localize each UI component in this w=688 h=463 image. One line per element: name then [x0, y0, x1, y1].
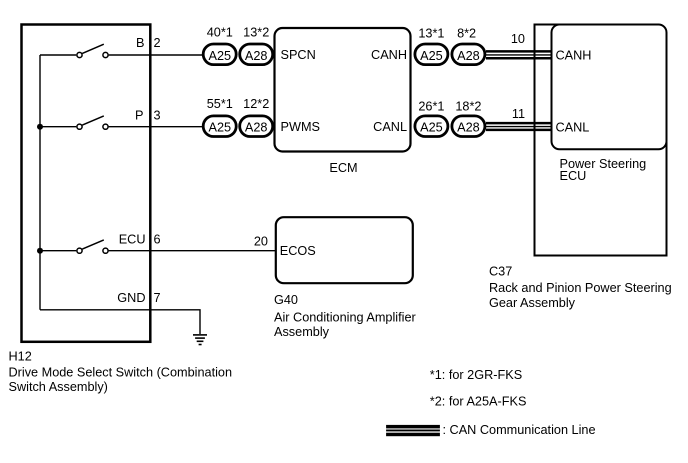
- A/C amplifier box G40: [276, 217, 413, 283]
- svg-text:13*1: 13*1: [418, 27, 444, 41]
- connector oval A25 (row P right): [415, 116, 448, 137]
- wire row ECU left: [40, 250, 76, 252]
- ECM U1: [275, 28, 411, 152]
- svg-text:A28: A28: [457, 121, 480, 135]
- wire row P left: [40, 126, 76, 128]
- connector oval A25 (row P left): [203, 116, 236, 137]
- svg-text:8*2: 8*2: [457, 27, 476, 41]
- svg-text:: CAN Communication Line: : CAN Communication Line: [443, 423, 596, 437]
- wire row B to A25: [109, 54, 203, 56]
- svg-text:ECM: ECM: [329, 161, 357, 175]
- svg-text:H12: H12: [9, 349, 32, 363]
- svg-text:C37: C37: [489, 264, 512, 278]
- connector oval A28 (row B left): [240, 44, 273, 65]
- svg-text:A28: A28: [245, 49, 268, 63]
- svg-text:ECU: ECU: [119, 233, 146, 247]
- svg-text:SPCN: SPCN: [281, 48, 316, 62]
- svg-text:*2: for A25A-FKS: *2: for A25A-FKS: [430, 394, 527, 408]
- wire CAN CANL triple line: [486, 123, 553, 130]
- svg-text:GND: GND: [117, 291, 145, 305]
- legend CAN symbol: [386, 425, 440, 436]
- wire row P to A25: [109, 126, 203, 128]
- svg-text:13*2: 13*2: [243, 25, 269, 39]
- svg-text:Switch Assembly): Switch Assembly): [9, 380, 108, 394]
- svg-text:18*2: 18*2: [455, 100, 481, 114]
- svg-text:CANH: CANH: [556, 49, 592, 63]
- connector oval A28 (row B right): [452, 44, 485, 65]
- connector oval A28 (row P left): [240, 116, 273, 137]
- svg-text:Drive Mode Select Switch (Comb: Drive Mode Select Switch (Combination: [9, 365, 233, 379]
- switch SW-ECU: [77, 240, 108, 253]
- svg-text:A25: A25: [209, 49, 232, 63]
- svg-text:6: 6: [154, 233, 161, 247]
- svg-text:ECOS: ECOS: [280, 244, 316, 258]
- wire row B left: [40, 54, 76, 56]
- svg-text:P: P: [135, 109, 143, 123]
- svg-text:Air Conditioning Amplifier: Air Conditioning Amplifier: [274, 311, 417, 325]
- svg-text:CANL: CANL: [556, 121, 590, 135]
- svg-text:G40: G40: [274, 293, 298, 307]
- connector box C37: [535, 25, 667, 256]
- svg-text:20: 20: [254, 234, 268, 248]
- svg-text:PWMS: PWMS: [281, 120, 320, 134]
- wire bus vertical: [39, 55, 41, 310]
- svg-text:CANH: CANH: [371, 48, 407, 62]
- svg-text:26*1: 26*1: [418, 100, 444, 114]
- svg-text:A28: A28: [245, 121, 268, 135]
- junction dot row P: [37, 124, 43, 130]
- svg-text:A25: A25: [420, 121, 443, 135]
- power steering ECU box: [552, 25, 667, 150]
- switch SW-P: [77, 116, 108, 129]
- connector oval A25 (row B left): [203, 44, 236, 65]
- svg-text:A28: A28: [457, 49, 480, 63]
- svg-text:Assembly: Assembly: [274, 325, 330, 339]
- switch assembly box H12: [22, 25, 151, 342]
- ground: [193, 335, 207, 345]
- wire CAN CANH triple line: [486, 51, 553, 58]
- svg-text:40*1: 40*1: [207, 25, 233, 39]
- wire row GND: [40, 310, 200, 334]
- wire row ECU to ECOS box: [109, 250, 276, 252]
- svg-text:11: 11: [512, 107, 525, 121]
- connector oval A28 (row P right): [452, 116, 485, 137]
- svg-text:2: 2: [154, 36, 161, 50]
- svg-text:55*1: 55*1: [207, 97, 233, 111]
- svg-text:B: B: [136, 36, 144, 50]
- svg-text:10: 10: [511, 32, 525, 46]
- connector oval A25 (row B right): [415, 44, 448, 65]
- svg-text:ECU: ECU: [560, 169, 587, 183]
- svg-text:CANL: CANL: [373, 120, 407, 134]
- junction dot row ECU: [37, 248, 43, 254]
- svg-text:*1: for 2GR-FKS: *1: for 2GR-FKS: [430, 368, 522, 382]
- svg-text:12*2: 12*2: [243, 97, 269, 111]
- svg-text:7: 7: [154, 291, 161, 305]
- svg-text:Rack and Pinion Power Steering: Rack and Pinion Power Steering: [489, 281, 672, 295]
- svg-text:3: 3: [154, 109, 161, 123]
- svg-text:A25: A25: [420, 49, 443, 63]
- switch SW-B: [77, 44, 108, 57]
- svg-text:Gear Assembly: Gear Assembly: [489, 296, 576, 310]
- svg-text:A25: A25: [209, 121, 232, 135]
